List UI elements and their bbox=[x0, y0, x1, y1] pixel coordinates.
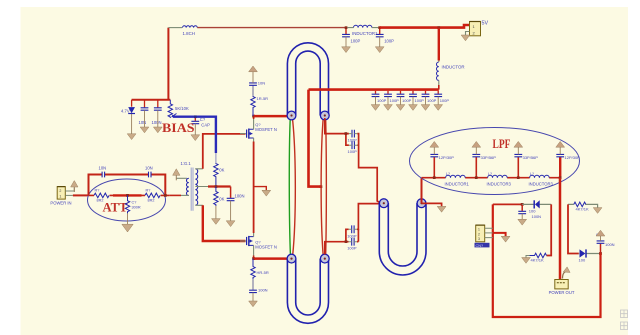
node: ATT shunt junction bbox=[126, 194, 129, 197]
svg-text:CN?: CN? bbox=[476, 244, 484, 248]
wire: Q2 drain to pad bbox=[254, 257, 288, 260]
svg-text:4K7/1K: 4K7/1K bbox=[576, 206, 589, 211]
svg-text:100N: 100N bbox=[532, 214, 542, 219]
wire: thick 5V rail bbox=[380, 25, 470, 28]
power port (POWER IN) bbox=[71, 181, 78, 193]
svg-text:INDUCTOR1: INDUCTOR1 bbox=[445, 182, 470, 187]
wire: top gate line bbox=[203, 134, 246, 169]
svg-text:10N: 10N bbox=[99, 166, 107, 171]
connector 3-pin (control) bbox=[475, 225, 493, 248]
inductor INDUCTOR (vertical) bbox=[437, 61, 465, 86]
svg-text:3: 3 bbox=[478, 237, 480, 241]
wire: 3-pin middle to ground bbox=[493, 233, 506, 236]
svg-text:5V: 5V bbox=[482, 21, 489, 27]
wire: Q1 drain bbox=[253, 116, 255, 119]
svg-text:C?: C? bbox=[132, 201, 137, 205]
svg-text:L?: L? bbox=[488, 172, 492, 176]
svg-text:100P: 100P bbox=[415, 98, 425, 103]
wire: top-left feed vertical bbox=[167, 28, 169, 100]
svg-text:10N: 10N bbox=[258, 80, 265, 85]
wire: top rail to INDUCTOR1 bbox=[197, 27, 346, 29]
transistor Q? MOSFET N (lower) bbox=[240, 233, 277, 256]
svg-text:100P: 100P bbox=[347, 246, 357, 251]
node F (pad TL3 right) bbox=[417, 199, 426, 208]
svg-text:POWER OUT: POWER OUT bbox=[549, 290, 575, 295]
svg-text:100P: 100P bbox=[377, 98, 387, 103]
wire: Q2 drain bbox=[253, 256, 255, 259]
capacitor 100N (right detector) bbox=[596, 230, 615, 253]
svg-text:L?: L? bbox=[530, 172, 534, 176]
svg-text:0K: 0K bbox=[219, 197, 224, 202]
node: Q2 drain junction bbox=[252, 257, 255, 260]
capacitor C 100P bypass 3 bbox=[396, 91, 412, 111]
wire: drop to vertical inductor bbox=[438, 28, 440, 61]
wire: ATT bypass loop bbox=[89, 175, 166, 196]
wire: top coupling path bbox=[325, 118, 381, 203]
capacitor C 100P bypass 2 bbox=[384, 91, 400, 111]
wire: source ground branch bbox=[254, 187, 267, 191]
capacitor C 100P bypass 1 bbox=[371, 91, 387, 111]
svg-text:100P: 100P bbox=[427, 98, 437, 103]
svg-text:CAP: CAP bbox=[201, 122, 210, 127]
text ATT bbox=[103, 201, 129, 215]
svg-text:300R: 300R bbox=[132, 205, 141, 209]
capacitor 10N (Q1 snubber) bbox=[249, 72, 265, 96]
svg-text:1:G.1: 1:G.1 bbox=[181, 161, 192, 166]
svg-text:100N: 100N bbox=[152, 120, 162, 125]
svg-text:100: 100 bbox=[529, 208, 536, 213]
svg-text:100N: 100N bbox=[605, 242, 615, 247]
svg-text:0K: 0K bbox=[219, 168, 224, 173]
svg-text:2: 2 bbox=[59, 189, 61, 193]
connector 5V (P?) bbox=[466, 21, 489, 36]
node: ATT bypass right junction bbox=[164, 194, 167, 197]
text LPF bbox=[493, 137, 511, 151]
capacitor 10N (ATT bypass 1) bbox=[99, 166, 107, 178]
resistor 4K7/1K (left detector) bbox=[522, 253, 547, 263]
ground (below 100P left) bbox=[342, 47, 351, 53]
capacitor 100P (top coupling a) bbox=[348, 130, 358, 143]
svg-text:100N: 100N bbox=[258, 288, 268, 293]
wire: ATT to transformer bbox=[169, 194, 181, 196]
svg-text:INDUCTOR: INDUCTOR bbox=[442, 65, 465, 70]
inductor L? INDUCTOR1 (LPF 1) bbox=[445, 172, 470, 187]
text BIAS bbox=[162, 120, 195, 135]
wire: inductor to supply rail bbox=[438, 85, 440, 90]
svg-text:100: 100 bbox=[579, 258, 586, 263]
transmission line TL1 (top arch) bbox=[287, 43, 328, 116]
wire: supply drop between balun legs bbox=[309, 90, 321, 187]
svg-text:10N: 10N bbox=[145, 166, 153, 171]
svg-text:MOSFET N: MOSFET N bbox=[255, 127, 277, 132]
resistor R? 8R2 (ATT series 2) bbox=[145, 189, 160, 203]
svg-text:8R2: 8R2 bbox=[148, 199, 155, 203]
wire: twisted pair right red inner bbox=[321, 117, 323, 257]
transmission line TL3 (output U) bbox=[379, 203, 426, 275]
wire: bottom coupling right stub bbox=[357, 229, 359, 241]
capacitor 10N (bias) bbox=[139, 100, 149, 133]
wire: twisted pair right red outer bbox=[325, 117, 328, 257]
resistor 0R/5R1 (Q2 snubber) bbox=[251, 259, 269, 280]
svg-text:100P: 100P bbox=[440, 98, 450, 103]
wire: input to ATT bbox=[73, 194, 89, 196]
svg-text:POWER IN: POWER IN bbox=[50, 201, 71, 206]
svg-text:INDUCTOR1: INDUCTOR1 bbox=[352, 31, 378, 36]
node: bias cap junction bbox=[194, 115, 197, 118]
svg-text:100P: 100P bbox=[347, 233, 357, 238]
capacitor 12P/30P (LPF 1) bbox=[430, 141, 454, 177]
resistor 0R/5R1 (Q1 snubber) bbox=[251, 96, 268, 116]
wire: coupler loop bbox=[493, 204, 601, 317]
svg-text:4.7V: 4.7V bbox=[121, 109, 130, 114]
wire: top coupling branch 2 bbox=[346, 134, 359, 146]
node: right detector junction bbox=[599, 252, 602, 255]
wire: top rail left stub bbox=[168, 27, 182, 29]
wire: bottom coupling path bbox=[325, 204, 381, 255]
node: balun feed tee bbox=[320, 185, 323, 188]
svg-text:100P: 100P bbox=[384, 39, 394, 44]
node E (pad TL3 left) bbox=[379, 199, 388, 208]
svg-text:1: 1 bbox=[478, 228, 480, 232]
svg-text:LPF: LPF bbox=[493, 137, 511, 151]
resistor 4K7/1K (right top) bbox=[574, 202, 589, 211]
wire: bottom gate line bbox=[203, 205, 246, 241]
node: bottom coupling junction bbox=[345, 240, 348, 243]
svg-text:100P: 100P bbox=[402, 98, 412, 103]
resistor 10K (lower bias divider) bbox=[212, 187, 225, 225]
resistor 10K (upper bias divider) bbox=[214, 163, 225, 187]
node C (pad TL bottom-left) bbox=[287, 254, 296, 263]
capacitor 33P/56P (LPF 3) bbox=[514, 141, 538, 177]
wire: supply rail (drain feed) bbox=[309, 88, 439, 91]
wire: BIAS rail bbox=[132, 99, 171, 101]
wire: ATT main line bbox=[89, 194, 170, 196]
capacitor 100P (left of INDUCTOR1) bbox=[342, 29, 360, 47]
ground (common source) bbox=[262, 190, 271, 196]
ground (flipped, Q1 snubber) bbox=[249, 66, 258, 72]
svg-text:8R2: 8R2 bbox=[97, 199, 104, 203]
svg-text:R?: R? bbox=[146, 189, 151, 193]
ground (TL3 right pad) bbox=[437, 206, 446, 212]
transformer T? 1:4.1 bbox=[181, 161, 209, 211]
zener diode 4.7V bbox=[121, 100, 136, 140]
capacitor 100N (left detector) bbox=[518, 204, 541, 225]
svg-text:100P: 100P bbox=[351, 39, 361, 44]
svg-text:R?: R? bbox=[95, 189, 100, 193]
inductor INDUCTOR1 (top rail) bbox=[347, 25, 378, 36]
transmission line TL2 (bottom arch) bbox=[287, 259, 328, 324]
ground (Q2 snubber) bbox=[249, 301, 258, 307]
svg-text:1R-5R: 1R-5R bbox=[257, 96, 269, 101]
connector POWER OUT bbox=[549, 280, 575, 296]
ground (3-pin connector) bbox=[501, 236, 510, 242]
wire: TL3 right pad to LPF bbox=[421, 178, 423, 204]
ATT block ellipse bbox=[88, 179, 166, 221]
capacitor 12P/30P (LPF 4) bbox=[556, 141, 580, 177]
inductor L? INDUCTOR3 (LPF 2) bbox=[487, 172, 512, 187]
wire: left detector line bbox=[493, 203, 522, 205]
node D (pad TL bottom-right) bbox=[320, 254, 329, 263]
capacitor 100P (right of INDUCTOR1) bbox=[376, 29, 394, 47]
wire: right detector vertical bbox=[568, 204, 579, 253]
capacitor 100P (top coupling b) bbox=[348, 141, 358, 154]
svg-text:33P/56P: 33P/56P bbox=[481, 155, 497, 160]
capacitor 100P (bottom coupling b) bbox=[347, 238, 357, 251]
svg-text:BIAS: BIAS bbox=[162, 120, 195, 135]
svg-text:HR-5R: HR-5R bbox=[257, 270, 269, 275]
wire: common source bbox=[253, 142, 255, 234]
svg-text:1: 1 bbox=[59, 195, 61, 199]
diode D? (left detector) bbox=[522, 200, 551, 213]
node: rail junction left bbox=[345, 26, 348, 29]
svg-text:12P/30P: 12P/30P bbox=[439, 155, 455, 160]
wire: right detector branch bbox=[568, 204, 598, 207]
svg-text:33P/56P: 33P/56P bbox=[523, 155, 539, 160]
ground (right detector top) bbox=[593, 208, 602, 214]
diode D? (right detector) bbox=[579, 249, 601, 262]
wire: TL3 right pad to ground bbox=[422, 203, 442, 206]
svg-text:1.8CH: 1.8CH bbox=[183, 31, 195, 36]
wire: Q1 drain to pad bbox=[254, 115, 288, 118]
capacitor 10N (ATT bypass 2) bbox=[145, 166, 153, 178]
capacitor 100N (bias) bbox=[152, 100, 163, 133]
inductor L? INDUCTOR3 (LPF 3) bbox=[529, 172, 554, 187]
node A (pad TL top-left) bbox=[287, 111, 296, 120]
node: Q1 drain junction bbox=[252, 115, 255, 118]
resistor R? 8R2 (ATT series 1) bbox=[94, 189, 109, 203]
LPF block ellipse bbox=[410, 128, 580, 195]
svg-text:MOSFET N: MOSFET N bbox=[255, 245, 277, 250]
capacitor 100N (centre tap) bbox=[226, 187, 244, 227]
capacitor C 100P bypass 4 bbox=[409, 91, 425, 111]
transistor Q? MOSFET N (upper) bbox=[240, 119, 277, 142]
potentiometer 5K/10K bbox=[168, 100, 189, 118]
node: left detector junction bbox=[521, 203, 524, 206]
svg-text:100N: 100N bbox=[235, 193, 245, 198]
node B (pad TL top-right) bbox=[320, 111, 329, 120]
wire: main output drop bbox=[559, 178, 562, 280]
capacitor C 100P bypass 5 bbox=[421, 91, 437, 111]
wire: transformer centre tap bbox=[208, 185, 231, 187]
wire: ATT mid thick segment bbox=[113, 194, 142, 196]
svg-text:10N: 10N bbox=[139, 120, 147, 125]
svg-text:ATT: ATT bbox=[103, 201, 129, 215]
capacitor 33P/56P (LPF 2) bbox=[472, 141, 496, 177]
wire: bias blue wire bbox=[173, 117, 216, 163]
wire: left detector drop bbox=[547, 204, 552, 255]
power port (POWER OUT) bbox=[563, 267, 571, 279]
wire: twisted pair left green bbox=[289, 117, 290, 257]
svg-text:INDUCTOR3: INDUCTOR3 bbox=[487, 182, 512, 187]
capacitor C? CAP (bias wire) bbox=[191, 117, 210, 141]
power port (transformer primary top) bbox=[173, 169, 187, 181]
svg-text:2: 2 bbox=[478, 232, 480, 236]
node: centre tap bbox=[215, 185, 218, 188]
node: rail junction right bbox=[378, 26, 381, 29]
svg-text:5K/10K: 5K/10K bbox=[175, 106, 189, 111]
resistor R? 300R (ATT shunt) bbox=[122, 195, 141, 232]
node: 5V rail drop junction bbox=[437, 26, 440, 29]
node: LPF junctions bbox=[433, 176, 562, 179]
capacitor 100N (Q2 snubber) bbox=[249, 279, 268, 301]
svg-text:12P/30P: 12P/30P bbox=[565, 155, 581, 160]
connector POWER IN bbox=[50, 187, 74, 206]
svg-text:4K7/1K: 4K7/1K bbox=[531, 258, 544, 263]
wire: LPF main line bbox=[422, 177, 561, 179]
svg-text:100P: 100P bbox=[390, 98, 400, 103]
svg-text:L?: L? bbox=[446, 172, 450, 176]
capacitor 100P (bottom coupling a) bbox=[347, 225, 357, 238]
svg-text:100P: 100P bbox=[348, 149, 358, 154]
svg-text:INDUCTOR3: INDUCTOR3 bbox=[529, 182, 554, 187]
ground (below 100P right) bbox=[375, 47, 384, 53]
ground (5V connector) bbox=[461, 35, 470, 41]
node: top coupling junction bbox=[345, 132, 348, 135]
wire: twisted pair left red bbox=[292, 117, 295, 257]
watermark glyphs bbox=[621, 310, 628, 330]
inductor L? 1.8uH (top-left) bbox=[183, 26, 198, 36]
capacitor C 100P bypass 6 bbox=[434, 91, 450, 111]
